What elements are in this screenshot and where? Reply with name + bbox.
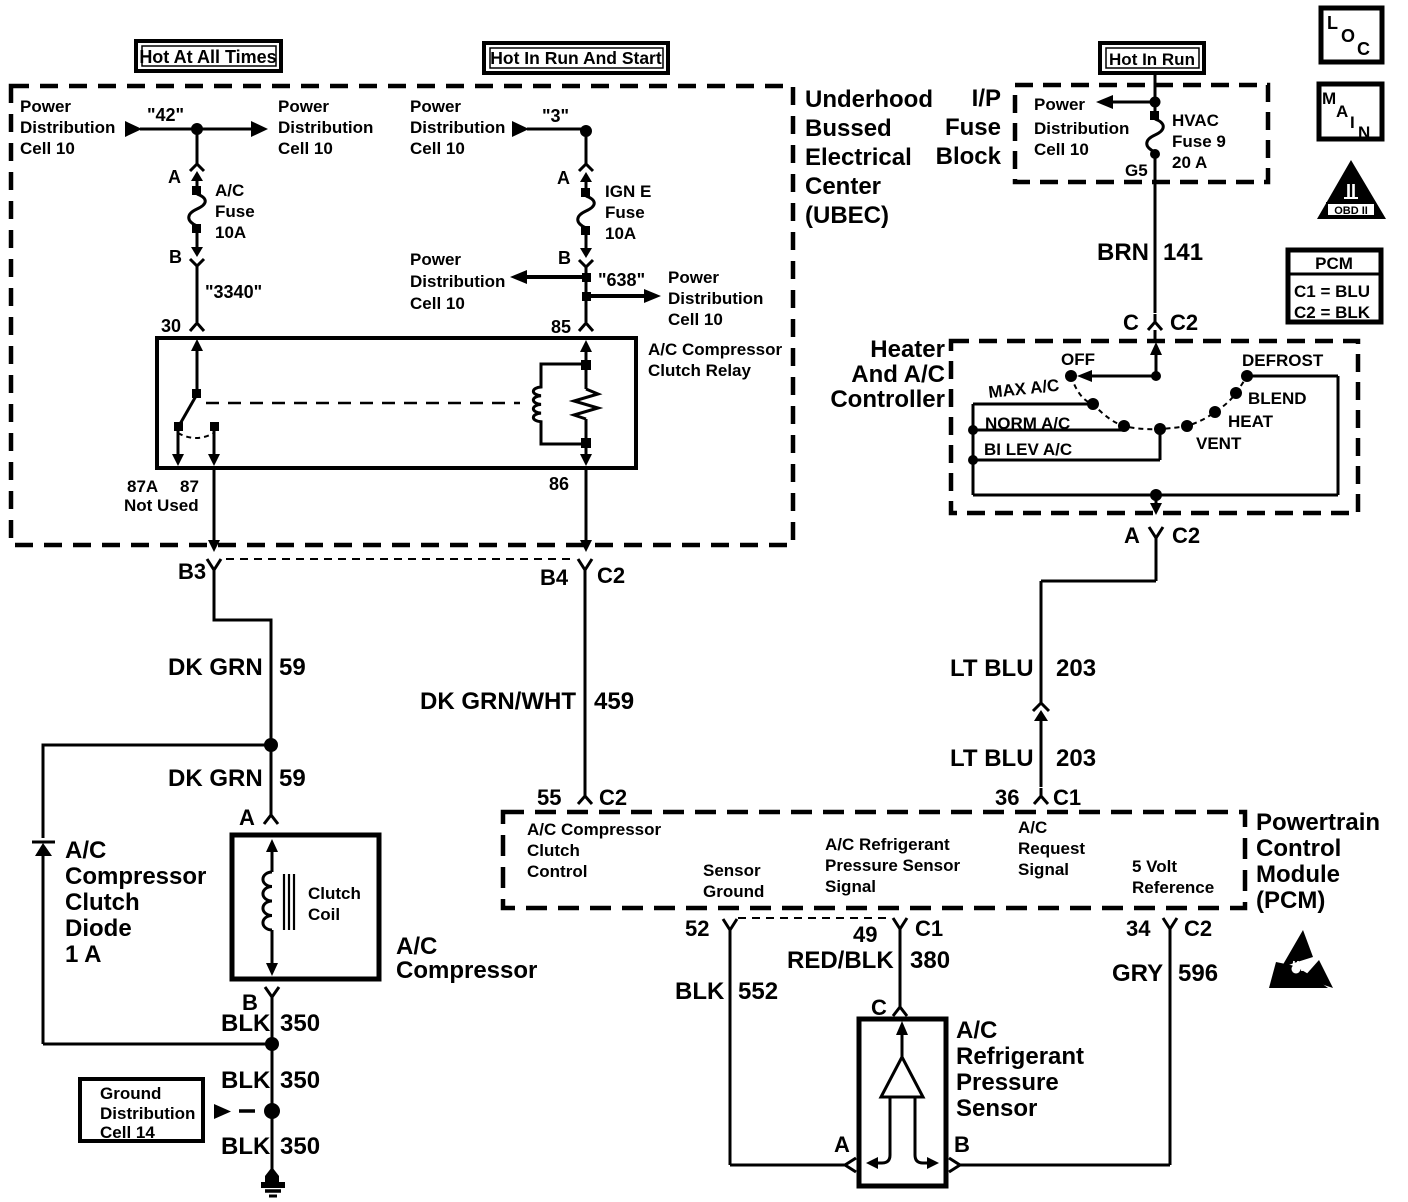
pin B connector (compressor) xyxy=(242,987,279,1015)
svg-text:C2: C2 xyxy=(597,563,625,588)
svg-text:Sensor: Sensor xyxy=(956,1095,1037,1122)
svg-text:BLEND: BLEND xyxy=(1248,389,1307,408)
svg-text:C2: C2 xyxy=(1170,310,1198,335)
thin dashed connector line B3-B4 xyxy=(226,558,574,560)
svg-text:Distribution: Distribution xyxy=(1034,119,1129,138)
svg-text:O: O xyxy=(1341,26,1355,46)
svg-text:Hot In Run And Start: Hot In Run And Start xyxy=(490,48,662,68)
pin 30 connector xyxy=(161,316,204,336)
svg-text:Cell 14: Cell 14 xyxy=(100,1123,155,1142)
svg-text:C1: C1 xyxy=(1053,785,1081,810)
svg-text:596: 596 xyxy=(1178,960,1218,987)
wire DK GRN 59 (lower) xyxy=(168,745,306,808)
PCM label xyxy=(1256,809,1380,914)
switch position VENT xyxy=(1181,420,1242,453)
node: Power Distribution Cell 10 (right of 42) xyxy=(251,97,373,158)
svg-text:380: 380 xyxy=(910,947,950,974)
svg-text:"42": "42" xyxy=(147,105,184,125)
pin B connector (sensor) xyxy=(949,1132,1170,1172)
svg-text:350: 350 xyxy=(280,1067,320,1094)
svg-text:87A: 87A xyxy=(127,477,158,496)
in-line connector on LT BLU xyxy=(1033,696,1049,711)
svg-text:Power: Power xyxy=(410,250,461,269)
switch position BI LEV A/C (wiper) xyxy=(984,423,1166,459)
pin 85 connector xyxy=(551,317,593,337)
svg-text:Heater: Heater xyxy=(870,336,945,363)
svg-text:Control: Control xyxy=(1256,835,1341,862)
switch position MAX A/C xyxy=(987,376,1099,410)
svg-text:(PCM): (PCM) xyxy=(1256,887,1325,914)
svg-text:Coil: Coil xyxy=(308,905,340,924)
svg-text:C2: C2 xyxy=(599,785,627,810)
svg-text:BLK: BLK xyxy=(221,1067,271,1094)
svg-text:G5: G5 xyxy=(1125,161,1148,180)
svg-text:Power: Power xyxy=(20,97,71,116)
I/P fuse block dashed box xyxy=(1015,85,1268,182)
controller feed wire with up arrow xyxy=(1077,342,1162,382)
svg-text:Clutch: Clutch xyxy=(527,841,580,860)
svg-text:49: 49 xyxy=(853,922,877,947)
svg-text:A/C: A/C xyxy=(65,837,106,864)
PCM dashed box xyxy=(503,812,1245,908)
A/C Compressor label xyxy=(396,933,537,984)
svg-text:55: 55 xyxy=(537,785,561,810)
svg-text:B: B xyxy=(169,247,182,267)
relay contact 87 xyxy=(208,422,220,466)
svg-text:C: C xyxy=(1357,39,1370,59)
svg-text:Module: Module xyxy=(1256,861,1340,888)
svg-text:10A: 10A xyxy=(605,224,636,243)
junction at ground tap xyxy=(264,1103,280,1119)
svg-text:(UBEC): (UBEC) xyxy=(805,202,889,229)
pin A connector (compressor) xyxy=(239,805,278,830)
svg-text:Clutch: Clutch xyxy=(308,884,361,903)
wire DK GRN 59 (upper) xyxy=(168,581,306,745)
svg-text:459: 459 xyxy=(594,688,634,715)
svg-text:Power: Power xyxy=(410,97,461,116)
connector A / C2 (controller) xyxy=(1124,523,1200,548)
wire BLK 350 (third) xyxy=(221,1111,320,1170)
svg-text:A/C: A/C xyxy=(956,1017,997,1044)
svg-text:BLK: BLK xyxy=(221,1133,271,1160)
wire BRN 141 xyxy=(1097,154,1203,313)
svg-text:C2 = BLK: C2 = BLK xyxy=(1294,303,1371,322)
svg-text:20 A: 20 A xyxy=(1172,153,1207,172)
svg-text:A/C: A/C xyxy=(396,933,437,960)
svg-text:HEAT: HEAT xyxy=(1228,412,1274,431)
node: Power Distribution Cell 10 (left of 638) xyxy=(410,250,591,313)
junction in fuse block xyxy=(1150,97,1161,108)
svg-text:Not Used: Not Used xyxy=(124,496,199,515)
svg-text:Ground: Ground xyxy=(703,882,764,901)
svg-text:Underhood: Underhood xyxy=(805,86,933,113)
node: Power Distribution Cell 10 (middle feed) xyxy=(410,97,529,158)
pin C connector (sensor) xyxy=(871,995,907,1020)
svg-text:Signal: Signal xyxy=(1018,860,1069,879)
svg-text:Power: Power xyxy=(278,97,329,116)
PCM pin function labels xyxy=(527,820,662,881)
connector C / C2 xyxy=(1123,310,1198,335)
diode return wire xyxy=(43,1043,272,1046)
svg-text:Distribution: Distribution xyxy=(20,118,115,137)
wire BLK 350 (second) xyxy=(221,1044,320,1111)
svg-text:350: 350 xyxy=(280,1133,320,1160)
svg-text:Cell 10: Cell 10 xyxy=(20,139,75,158)
svg-text:Reference: Reference xyxy=(1132,878,1214,897)
clutch coil inside compressor xyxy=(263,839,361,976)
svg-text:A: A xyxy=(1124,523,1140,548)
svg-text:Compressor: Compressor xyxy=(396,957,537,984)
dashed relay actuator line xyxy=(206,402,520,405)
svg-text:10A: 10A xyxy=(215,223,246,242)
svg-text:552: 552 xyxy=(738,978,778,1005)
controller output junction and arrow xyxy=(1150,489,1162,515)
wire down to IGN E fuse xyxy=(585,131,588,164)
MAIN corner icon xyxy=(1319,84,1382,142)
pin 52 connector xyxy=(685,916,737,943)
svg-text:N: N xyxy=(1358,123,1370,142)
svg-text:A/C: A/C xyxy=(1018,818,1047,837)
wire down to A/C fuse xyxy=(196,129,199,164)
wire "3340" xyxy=(197,266,262,322)
wire "3" bus xyxy=(527,106,586,129)
switch position OFF xyxy=(1061,350,1095,382)
svg-text:Clutch: Clutch xyxy=(65,889,140,916)
node: Power Distribution Cell 10 (right of 638) xyxy=(582,268,763,329)
svg-text:HVAC: HVAC xyxy=(1172,111,1219,130)
wire RED/BLK 380 xyxy=(787,943,950,1000)
svg-text:"638": "638" xyxy=(598,270,645,290)
ground G104 symbol xyxy=(261,1167,285,1196)
svg-text:Distribution: Distribution xyxy=(278,118,373,137)
svg-text:Cell 10: Cell 10 xyxy=(410,294,465,313)
svg-text:141: 141 xyxy=(1163,239,1203,266)
thin dashed connector line 52-49 xyxy=(738,917,892,919)
diode A/C Compressor Clutch Diode 1 A xyxy=(32,837,206,1044)
svg-text:C: C xyxy=(871,995,887,1020)
pin B connector of IGN E fuse xyxy=(579,260,593,267)
wire "42" bus xyxy=(140,105,252,129)
svg-text:Refrigerant: Refrigerant xyxy=(956,1043,1084,1070)
svg-text:"3": "3" xyxy=(542,106,569,126)
svg-text:Request: Request xyxy=(1018,839,1085,858)
Ground Distribution Cell 14 box xyxy=(80,1079,203,1142)
svg-text:Bussed: Bussed xyxy=(805,115,892,142)
svg-text:Fuse 9: Fuse 9 xyxy=(1172,132,1226,151)
svg-text:C2: C2 xyxy=(1184,916,1212,941)
svg-text:C1: C1 xyxy=(915,916,943,941)
svg-text:Electrical: Electrical xyxy=(805,144,912,171)
svg-text:36: 36 xyxy=(995,785,1019,810)
svg-text:I/P: I/P xyxy=(972,85,1001,112)
wire LT BLU 203 (lower) xyxy=(950,714,1096,787)
svg-text:B4: B4 xyxy=(540,565,569,590)
dashed rotary arc xyxy=(1071,376,1247,429)
svg-text:Cell 10: Cell 10 xyxy=(278,139,333,158)
label box Hot At All Times xyxy=(136,41,281,71)
svg-text:DEFROST: DEFROST xyxy=(1242,351,1324,370)
svg-text:Powertrain: Powertrain xyxy=(1256,809,1380,836)
svg-text:Power: Power xyxy=(668,268,719,287)
svg-text:30: 30 xyxy=(161,316,181,336)
wire to pin 85 xyxy=(585,267,588,322)
svg-text:59: 59 xyxy=(279,654,306,681)
svg-text:Ground: Ground xyxy=(100,1084,161,1103)
ground distribution tap arrow xyxy=(214,1104,255,1119)
diode branch wire xyxy=(43,745,271,838)
fuse F: A/C Fuse 10A xyxy=(189,171,255,257)
switch position BLEND xyxy=(1230,387,1307,408)
svg-text:C: C xyxy=(1123,310,1139,335)
svg-text:IGN E: IGN E xyxy=(605,182,651,201)
svg-text:OFF: OFF xyxy=(1061,350,1095,369)
relay coil (parallel loop) xyxy=(533,364,583,444)
pin A connector of A/C fuse xyxy=(190,164,204,171)
svg-text:A/C Refrigerant: A/C Refrigerant xyxy=(825,835,950,854)
svg-text:A: A xyxy=(834,1132,850,1157)
svg-text:GRY: GRY xyxy=(1112,960,1163,987)
PCM connector legend xyxy=(1288,250,1381,322)
junction of diode return xyxy=(265,1037,279,1051)
relay switch arm (pin 30) xyxy=(180,339,203,424)
svg-text:BI LEV A/C: BI LEV A/C xyxy=(984,440,1072,459)
svg-text:Center: Center xyxy=(805,173,881,200)
relay coil branch (pin 85 to 86) xyxy=(574,340,598,466)
OBD II triangle icon xyxy=(1317,160,1386,219)
svg-text:LT BLU: LT BLU xyxy=(950,655,1034,682)
junction to diode branch xyxy=(264,738,278,752)
svg-text:Controller: Controller xyxy=(830,386,945,413)
svg-text:M: M xyxy=(1322,89,1336,108)
svg-text:RED/BLK: RED/BLK xyxy=(787,947,894,974)
pin A connector of IGN E fuse xyxy=(579,164,593,171)
svg-text:Hot At All Times: Hot At All Times xyxy=(139,47,276,67)
svg-text:B: B xyxy=(558,248,571,268)
svg-text:Distribution: Distribution xyxy=(410,272,505,291)
wire into controller xyxy=(1154,330,1157,341)
UBEC label xyxy=(805,86,933,229)
svg-text:Hot In Run: Hot In Run xyxy=(1109,50,1195,69)
wire LT BLU 203 (upper) xyxy=(950,548,1156,700)
fuse: HVAC Fuse 9 20 A xyxy=(1147,111,1226,172)
svg-text:1 A: 1 A xyxy=(65,941,101,968)
label box Hot In Run xyxy=(1100,43,1204,73)
switch position HEAT xyxy=(1209,406,1274,431)
label box Hot In Run And Start xyxy=(484,43,668,73)
relay contact 87A xyxy=(172,422,184,466)
relay box: A/C Compressor Clutch Relay xyxy=(157,338,636,468)
svg-text:87: 87 xyxy=(180,477,199,496)
svg-text:A: A xyxy=(239,805,255,830)
svg-text:Control: Control xyxy=(527,862,587,881)
sensor label xyxy=(956,1017,1084,1122)
svg-text:Fuse: Fuse xyxy=(945,114,1001,141)
svg-text:A/C Compressor: A/C Compressor xyxy=(648,340,783,359)
svg-text:BLK: BLK xyxy=(221,1010,271,1037)
svg-text:Pressure Sensor: Pressure Sensor xyxy=(825,856,961,875)
wire DK GRN/WHT 459 xyxy=(420,581,634,788)
svg-text:VENT: VENT xyxy=(1196,434,1242,453)
pin 87 label and connector xyxy=(180,469,221,581)
svg-text:OBD II: OBD II xyxy=(1334,205,1368,217)
wire BLK 350 (first) xyxy=(221,1010,320,1044)
svg-text:203: 203 xyxy=(1056,745,1096,772)
svg-text:I: I xyxy=(1350,113,1355,132)
svg-text:DK GRN: DK GRN xyxy=(168,654,263,681)
A/C Compressor box xyxy=(232,835,379,979)
UBEC dashed enclosure xyxy=(11,86,793,545)
node B4 / C2 xyxy=(540,563,625,590)
svg-text:"3340": "3340" xyxy=(205,282,262,302)
ESD sensitive icon xyxy=(1269,930,1333,988)
svg-text:And A/C: And A/C xyxy=(851,361,945,388)
svg-text:Compressor: Compressor xyxy=(65,863,206,890)
switch position NORM A/C xyxy=(985,414,1130,433)
sensor internal symbol xyxy=(866,1021,939,1169)
svg-text:C1 = BLU: C1 = BLU xyxy=(1294,282,1370,301)
svg-text:350: 350 xyxy=(280,1010,320,1037)
svg-text:Distribution: Distribution xyxy=(100,1104,195,1123)
svg-text:Signal: Signal xyxy=(825,877,876,896)
wire from Hot In Run xyxy=(1154,74,1157,112)
Heater And A/C Controller label xyxy=(830,336,945,413)
svg-text:A: A xyxy=(557,168,570,188)
svg-text:203: 203 xyxy=(1056,655,1096,682)
pin A connector (sensor) xyxy=(730,1132,856,1172)
switch position DEFROST xyxy=(1241,351,1324,382)
fuse F: IGN E Fuse 10A xyxy=(578,172,652,258)
svg-text:Fuse: Fuse xyxy=(215,202,255,221)
wire GRY 596 xyxy=(1112,943,1218,1165)
junction on 3 bus xyxy=(580,125,592,137)
svg-text:B: B xyxy=(954,1132,970,1157)
pin 86 label and connector xyxy=(549,469,592,581)
connector 36 / C1 xyxy=(995,785,1081,810)
svg-text:DK GRN/WHT: DK GRN/WHT xyxy=(420,688,576,715)
pin B connector of A/C fuse xyxy=(190,259,204,266)
svg-text:Fuse: Fuse xyxy=(605,203,645,222)
dashed link between contacts xyxy=(178,433,214,438)
LOC corner icon xyxy=(1321,8,1382,62)
svg-text:5 Volt: 5 Volt xyxy=(1132,857,1177,876)
svg-text:A/C Compressor: A/C Compressor xyxy=(527,820,662,839)
svg-text:Cell 10: Cell 10 xyxy=(1034,140,1089,159)
svg-text:PCM: PCM xyxy=(1315,254,1353,273)
svg-text:DK GRN: DK GRN xyxy=(168,765,263,792)
svg-text:A: A xyxy=(168,167,181,187)
connector 55 / C2 xyxy=(537,785,627,810)
svg-text:BRN: BRN xyxy=(1097,239,1149,266)
node: Power Distribution Cell 10 (I/P) xyxy=(1034,95,1155,159)
pin 49 / C1 connector xyxy=(853,916,943,947)
svg-text:Distribution: Distribution xyxy=(668,289,763,308)
svg-text:Block: Block xyxy=(936,143,1002,170)
svg-text:A: A xyxy=(1336,102,1348,121)
svg-text:C2: C2 xyxy=(1172,523,1200,548)
pin 34 / C2 connector xyxy=(1126,916,1212,943)
svg-text:Sensor: Sensor xyxy=(703,861,761,880)
svg-text:BLK: BLK xyxy=(675,978,725,1005)
svg-text:52: 52 xyxy=(685,916,709,941)
svg-text:Cell 10: Cell 10 xyxy=(668,310,723,329)
svg-text:Pressure: Pressure xyxy=(956,1069,1059,1096)
svg-text:Power: Power xyxy=(1034,95,1085,114)
svg-text:86: 86 xyxy=(549,474,569,494)
controller contact comb xyxy=(968,376,1338,495)
svg-text:59: 59 xyxy=(279,765,306,792)
svg-text:Cell 10: Cell 10 xyxy=(410,139,465,158)
junction on 42 bus xyxy=(191,123,203,135)
svg-text:A/C: A/C xyxy=(215,181,244,200)
svg-text:34: 34 xyxy=(1126,916,1151,941)
I/P Fuse Block label xyxy=(936,85,1002,170)
wire BLK 552 xyxy=(675,943,778,1165)
svg-text:L: L xyxy=(1327,13,1338,33)
svg-text:85: 85 xyxy=(551,317,571,337)
node: Power Distribution Cell 10 (left feed) xyxy=(20,97,142,158)
svg-text:Clutch Relay: Clutch Relay xyxy=(648,361,752,380)
A/C Refrigerant Pressure Sensor box xyxy=(859,1019,946,1186)
svg-text:Diode: Diode xyxy=(65,915,132,942)
svg-text:B3: B3 xyxy=(178,559,206,584)
svg-text:Distribution: Distribution xyxy=(410,118,505,137)
Heater And A/C Controller dashed box xyxy=(951,341,1358,513)
svg-text:LT BLU: LT BLU xyxy=(950,745,1034,772)
